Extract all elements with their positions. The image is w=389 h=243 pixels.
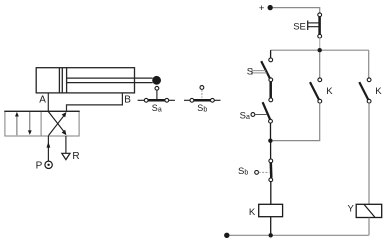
relay contact K (middle, NO)	[318, 78, 322, 82]
wire Y to bottom rail	[368, 218, 370, 236]
top rail	[271, 49, 369, 51]
switch S (NO, detent)	[269, 58, 273, 62]
Sa marker left terminal	[144, 98, 148, 102]
wire K contact to left junction	[273, 103, 320, 140]
valve centre divider	[40, 111, 42, 136]
switch Sb (closed, roller)	[269, 159, 273, 163]
S detent actuator	[251, 68, 253, 75]
Sa roller stem	[156, 90, 158, 99]
piston line 1	[58, 68, 60, 93]
valve top edge (dark)	[4, 110, 79, 112]
valve right box cross line A-R (arrow down-right)	[48, 112, 64, 132]
relay coil K	[259, 204, 283, 216]
Sa marker left stub	[138, 99, 145, 101]
Sb marker left terminal	[190, 98, 194, 102]
svg-text:+: +	[259, 3, 265, 14]
rod end cam	[152, 76, 161, 85]
Sa marker right stub	[169, 99, 175, 101]
svg-text:S: S	[247, 66, 253, 77]
Sa marker right terminal	[165, 98, 169, 102]
Sb marker bar	[194, 99, 211, 102]
pipe B (cylinder to valve, staircase)	[67, 93, 123, 111]
wire + feed to SE	[273, 8, 320, 13]
Sb actuator link	[255, 171, 259, 175]
svg-text:A: A	[39, 94, 46, 105]
bottom rail terminal dot	[224, 233, 229, 238]
P supply line with up arrow	[47, 136, 49, 161]
limit switch roller Sa	[155, 86, 159, 90]
piston rod bottom edge	[67, 82, 153, 84]
svg-text:B: B	[124, 94, 131, 105]
SE detent actuator	[307, 21, 309, 31]
wire Sb to relay coil	[270, 182, 272, 205]
piston rod top edge	[67, 77, 153, 79]
closed contact below S	[269, 82, 272, 98]
wire rail to K contact (middle)	[319, 52, 321, 78]
relay contact K (right, NO)	[367, 78, 371, 82]
bottom rail	[227, 234, 369, 236]
junction node top	[318, 48, 322, 52]
R exhaust line	[65, 136, 67, 153]
junction node bottom	[269, 233, 273, 237]
piston line 2	[61, 68, 63, 93]
Sb marker roller	[200, 86, 204, 90]
wire SE to junction	[319, 38, 321, 50]
Sb marker right terminal	[211, 98, 215, 102]
wire rail to K contact (right)	[368, 50, 370, 78]
svg-text:K: K	[249, 207, 256, 218]
pipe A (cylinder to valve)	[47, 93, 49, 111]
svg-text:K: K	[326, 86, 333, 97]
valve right box cross line P-B (arrow up-right)	[48, 115, 64, 135]
R exhaust triangle	[62, 153, 70, 159]
Sb marker left stub	[184, 99, 190, 101]
valve 4/2 body	[5, 111, 79, 136]
svg-text:R: R	[72, 151, 79, 162]
Sb marker right stub	[214, 99, 220, 101]
svg-text:SE: SE	[293, 21, 306, 32]
Sb roller stem (inactive)	[201, 90, 203, 98]
piston rod base line	[66, 68, 68, 93]
wire Sa to junction	[270, 123, 272, 141]
switch SE (closed, detent)	[318, 13, 322, 17]
svg-text:P: P	[36, 160, 43, 171]
solenoid Y	[356, 204, 382, 217]
wire junction to Sb	[270, 141, 272, 159]
wire coil to bottom rail	[270, 217, 272, 236]
valve left box down arrow	[29, 112, 31, 131]
svg-text:Y: Y	[348, 204, 355, 215]
valve left box up arrow	[16, 115, 18, 135]
cylinder body	[36, 68, 134, 93]
wire rail to S	[270, 50, 272, 58]
svg-text:K: K	[375, 86, 382, 97]
junction node left	[268, 139, 272, 143]
wire K contact to solenoid Y	[368, 103, 370, 204]
Sa marker bar	[148, 99, 165, 102]
P pressure source symbol	[45, 161, 52, 168]
Sa actuator link	[251, 113, 255, 117]
supply terminal dot	[268, 5, 273, 10]
switch Sa (NO, roller)	[263, 102, 271, 119]
